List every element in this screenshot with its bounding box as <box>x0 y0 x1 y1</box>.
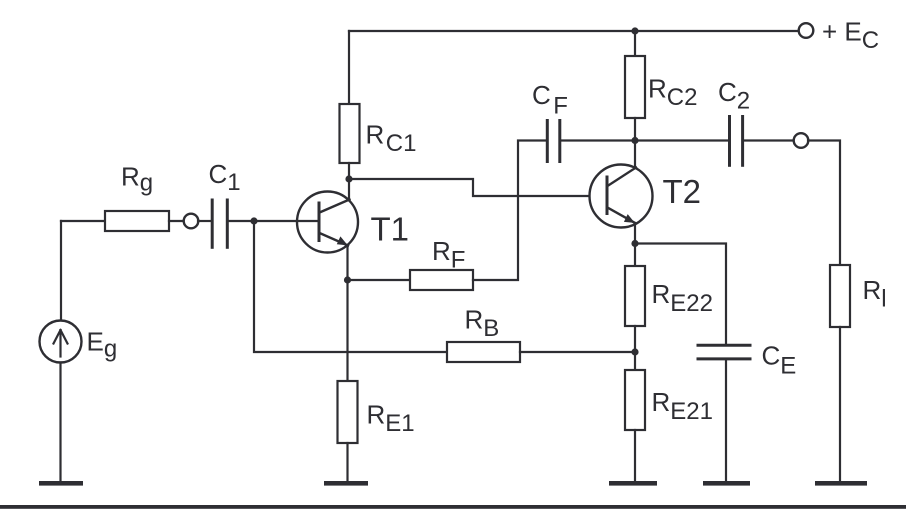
node CF/C2 line junction <box>631 137 638 144</box>
wire T1 emitter down to RE1 <box>346 246 348 382</box>
svg-text:RF: RF <box>432 236 465 274</box>
wire terminal to C1 <box>198 220 211 222</box>
label RC1 <box>366 120 417 158</box>
wire C2 to output terminal <box>744 139 794 141</box>
svg-text:Eg: Eg <box>87 327 118 363</box>
capacitor C1 <box>212 200 227 247</box>
svg-text:RE21: RE21 <box>652 387 713 425</box>
ground under RE21 <box>609 481 657 486</box>
svg-text:Rl: Rl <box>863 275 887 313</box>
svg-text:+ EC: + EC <box>822 17 879 55</box>
resistor RE21 <box>625 370 645 430</box>
wire Eg to ground <box>59 363 61 482</box>
svg-text:RC1: RC1 <box>366 120 417 158</box>
label Eg <box>87 327 118 363</box>
svg-text:Rg: Rg <box>121 162 153 197</box>
svg-text:CF: CF <box>532 80 568 120</box>
resistor Rl <box>830 265 850 327</box>
wire CE to ground <box>725 360 727 481</box>
resistor RE22 <box>625 266 645 326</box>
wire Rg to terminal <box>169 220 184 222</box>
resistor Rg <box>105 211 169 231</box>
wire RC2 to T2 collector <box>634 118 636 168</box>
label RE1 <box>367 400 415 438</box>
label RE21 <box>652 387 713 425</box>
wire C1 to T1 base <box>229 220 319 222</box>
wire RE21 to ground <box>634 430 636 481</box>
node top rail junction <box>631 27 638 34</box>
wire RB to RE2 node <box>520 351 635 353</box>
wire RE1 to ground <box>346 443 348 481</box>
svg-text:RE1: RE1 <box>367 400 415 438</box>
label Rl <box>863 275 887 313</box>
terminal input <box>184 214 199 229</box>
ground under RE1 <box>324 481 368 486</box>
ground under CE <box>703 481 750 486</box>
node RB junction <box>631 348 638 355</box>
svg-text:C1: C1 <box>209 159 241 196</box>
wire emitter to RF <box>348 279 411 281</box>
label CF <box>532 80 568 120</box>
ground under Rl <box>815 481 867 486</box>
wire RE22 to RE21 <box>634 326 636 370</box>
label RF <box>432 236 465 274</box>
resistor RE1 <box>338 381 358 443</box>
wire emitter node to CE <box>635 244 726 345</box>
wire Rl to ground <box>839 327 841 481</box>
wire node down to RB <box>254 221 447 352</box>
resistor RF <box>410 270 473 290</box>
node T1 collector <box>345 175 352 182</box>
wire RC1 to T1 collector <box>348 163 350 200</box>
resistor RB <box>447 342 520 362</box>
capacitor CE <box>698 345 750 359</box>
wire top supply rail <box>349 30 799 32</box>
wire input left <box>61 220 105 222</box>
label RE22 <box>652 279 713 317</box>
wire rail down to RC1 <box>348 31 350 104</box>
current source Eg <box>40 321 82 363</box>
transistor T1 <box>297 192 358 253</box>
svg-text:RE22: RE22 <box>652 279 713 317</box>
label T2 <box>663 173 702 210</box>
svg-text:T2: T2 <box>663 173 702 210</box>
label RC2 <box>648 74 697 112</box>
wire output to Rl <box>808 141 840 266</box>
label C2 <box>718 77 750 115</box>
wire node to C2 <box>635 139 728 141</box>
svg-text:RC2: RC2 <box>648 74 697 112</box>
resistor RC2 <box>625 56 645 118</box>
capacitor C2 <box>730 117 743 166</box>
svg-text:RB: RB <box>465 305 500 343</box>
node T2 emitter <box>631 240 638 247</box>
ground under Eg <box>39 481 83 486</box>
capacitor CF <box>547 121 560 162</box>
node input junction <box>250 217 257 224</box>
transistor T2 <box>590 165 653 228</box>
terminal +EC <box>799 23 814 38</box>
label +EC <box>822 17 879 55</box>
wire rail to RC2 <box>634 31 636 56</box>
svg-text:CE: CE <box>762 341 797 380</box>
wire CF to node <box>561 139 635 141</box>
resistor RC1 <box>340 104 360 163</box>
label RB <box>465 305 500 343</box>
label T1 <box>371 211 410 248</box>
label C1 <box>209 159 241 196</box>
terminal output <box>794 133 809 148</box>
label CE <box>762 341 797 380</box>
wire T2 emitter to RE22 <box>634 223 636 266</box>
wire input down to Eg <box>60 221 62 321</box>
label Rg <box>121 162 153 197</box>
wire T1 collector to T2 base <box>349 179 607 196</box>
svg-text:C2: C2 <box>718 77 750 115</box>
wire RF to CF <box>473 141 546 281</box>
node T1 emitter <box>344 276 351 283</box>
svg-text:T1: T1 <box>371 211 410 248</box>
